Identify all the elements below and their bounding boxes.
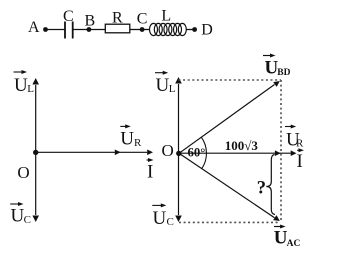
svg-text:L: L xyxy=(27,83,34,95)
svg-text:C: C xyxy=(167,216,174,228)
svg-text:100√3: 100√3 xyxy=(225,138,259,153)
label UL with vector arrow xyxy=(14,70,35,96)
label UR with vector arrow xyxy=(285,125,304,151)
svg-text:A: A xyxy=(28,19,40,36)
svg-text:O: O xyxy=(162,141,174,160)
arrowhead at axis end xyxy=(291,150,297,156)
svg-text:U: U xyxy=(156,75,170,96)
right vertical axis xyxy=(178,84,180,215)
label UL with vector arrow xyxy=(155,71,176,96)
svg-text:L: L xyxy=(161,8,171,25)
svg-text:U: U xyxy=(11,205,25,226)
wire inductor to D xyxy=(186,29,194,31)
dashed vertical right xyxy=(280,80,282,222)
node C dot xyxy=(140,27,145,32)
node D terminal dot xyxy=(192,27,197,32)
node A terminal dot xyxy=(43,27,48,32)
label U_AC bold with vector arrow xyxy=(274,225,301,250)
svg-text:B: B xyxy=(85,13,96,30)
vector U_BD (O to top right) xyxy=(179,85,275,154)
wire capacitor to B xyxy=(73,29,89,31)
origin O dot xyxy=(33,150,38,155)
inductor L coil xyxy=(150,23,187,35)
label I with vector arrow xyxy=(297,148,305,172)
label UC with vector arrow xyxy=(152,203,174,229)
down arrowhead xyxy=(175,216,182,223)
up arrowhead xyxy=(175,77,182,84)
resistor R body xyxy=(105,24,130,33)
svg-text:C: C xyxy=(137,10,148,27)
origin O dot xyxy=(176,151,181,156)
capacitor C plates xyxy=(64,22,66,39)
svg-text:R: R xyxy=(134,137,142,149)
left horizontal axis xyxy=(36,151,150,153)
vector U_AC (O to bottom right) xyxy=(179,153,275,217)
60 degree arc xyxy=(201,137,206,169)
right horizontal axis xyxy=(179,152,295,154)
curly brace marking ? segment xyxy=(266,155,275,215)
svg-text:AC: AC xyxy=(287,239,301,249)
svg-text:R: R xyxy=(296,138,304,150)
down arrowhead UC xyxy=(32,216,39,223)
svg-text:I: I xyxy=(297,151,303,172)
svg-text:C: C xyxy=(24,214,31,226)
svg-text:BD: BD xyxy=(277,68,290,78)
svg-text:U: U xyxy=(120,129,134,150)
svg-text:R: R xyxy=(112,9,123,26)
mid arrowhead UR tip xyxy=(115,150,121,156)
svg-text:O: O xyxy=(17,163,29,182)
left vertical axis (UL up, UC down) xyxy=(35,85,37,215)
end arrowhead I axis xyxy=(147,150,153,156)
wire A to capacitor xyxy=(46,29,65,31)
wire resistor to C xyxy=(130,29,142,31)
label U_BD bold with vector arrow xyxy=(263,54,291,79)
label I with vector arrow xyxy=(147,158,154,183)
svg-text:U: U xyxy=(153,208,167,229)
wire B to resistor xyxy=(89,29,105,31)
dashed horizontal bottom xyxy=(179,221,279,223)
label UC with vector arrow xyxy=(10,202,31,226)
label UR with vector arrow xyxy=(120,124,142,149)
svg-text:L: L xyxy=(169,83,176,95)
svg-text:D: D xyxy=(201,21,213,38)
dashed horizontal top xyxy=(179,79,282,81)
up arrowhead UL xyxy=(32,78,39,85)
svg-text:I: I xyxy=(147,162,153,183)
svg-text:?: ? xyxy=(257,179,266,199)
svg-text:U: U xyxy=(14,75,28,96)
svg-text:C: C xyxy=(63,8,74,25)
svg-text:60°: 60° xyxy=(188,146,206,160)
wire C to inductor xyxy=(142,29,150,31)
arrowhead at 100sqrt3 end xyxy=(275,150,281,156)
node B dot xyxy=(87,27,92,32)
